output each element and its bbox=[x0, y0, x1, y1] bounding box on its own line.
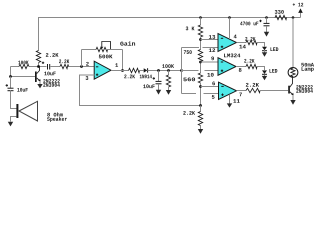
wire comparator2 output bbox=[236, 66, 246, 68]
wire top supply rail bbox=[39, 18, 301, 51]
node detector junctions bbox=[157, 69, 160, 72]
node Q1 collector junction bbox=[37, 65, 40, 68]
op-amp U3 LM324 comparator 2 bbox=[218, 58, 236, 76]
wire pin 11 ground bbox=[229, 95, 231, 104]
wire divider chain top bbox=[200, 18, 202, 26]
wire cap to speaker bbox=[11, 91, 17, 109]
speaker SPK1 8 Ohm bbox=[16, 104, 18, 118]
ground filter resistor bbox=[166, 90, 171, 95]
lamp L1 50mA bbox=[292, 18, 294, 68]
node supply-rail junction dots bbox=[199, 16, 202, 19]
resistor R12 2.2K bbox=[246, 64, 257, 68]
wire comparator1 output bbox=[237, 42, 247, 44]
wire R1 to collector node bbox=[38, 63, 40, 67]
node output junction bbox=[121, 69, 124, 72]
ground speaker bbox=[8, 122, 13, 127]
power +12 arrow bbox=[300, 13, 302, 18]
resistor R8 750 bbox=[198, 50, 202, 62]
potentiometer R4 500K gain bbox=[81, 50, 83, 67]
wire comparator3 output bbox=[237, 90, 247, 92]
LED D3 bbox=[262, 70, 267, 74]
wire to pin 5 bbox=[182, 93, 197, 95]
node tap 1 bbox=[199, 38, 202, 41]
node feedback junction at op-amp input bbox=[80, 65, 83, 68]
wire signal bus vertical bbox=[181, 48, 183, 94]
ground divider bottom bbox=[198, 129, 203, 134]
node tap 2 bbox=[199, 61, 202, 64]
resistor R5 2.2K (output series) bbox=[129, 68, 140, 72]
wire pot to output node bbox=[122, 50, 124, 71]
wire to LED1 bbox=[257, 43, 265, 47]
resistor R7 3K bbox=[198, 25, 202, 37]
op-amp U4 LM324 comparator 3 bbox=[219, 82, 237, 99]
wire 100K corner drop bbox=[10, 67, 12, 77]
wire Q1 base line bbox=[11, 76, 36, 78]
ground filter cap bbox=[156, 90, 161, 95]
wire tap2 to pin 9 bbox=[201, 61, 219, 63]
capacitor C3 10uF filter bbox=[158, 71, 160, 82]
op-amp U2 LM324 comparator 1 bbox=[218, 34, 237, 52]
wire pin 4 power bbox=[229, 18, 231, 39]
wire diode to detector node bbox=[148, 70, 182, 72]
resistor R14 330 bbox=[275, 15, 287, 19]
wire tap1 to pin 13 bbox=[201, 39, 219, 41]
resistor R13 2.2K bbox=[246, 88, 260, 92]
ground 4700uF bbox=[264, 32, 269, 37]
diode D1 1N914 bbox=[144, 68, 148, 72]
capacitor C1 10uF coupling bbox=[47, 64, 49, 70]
LED D2 bbox=[262, 47, 267, 51]
capacitor C2 10uF input bbox=[8, 87, 14, 89]
wire tap3 to pin 6 bbox=[201, 86, 219, 88]
ground Q1 emitter bbox=[39, 81, 41, 84]
resistor R9 560 bbox=[198, 73, 202, 83]
op-amp U1 LM324 section 1 bbox=[94, 61, 111, 79]
resistor R6 100K filter bbox=[168, 71, 170, 76]
resistor R10 2.2K divider bottom bbox=[200, 106, 202, 112]
wire to Q2 base bbox=[260, 90, 288, 92]
capacitor C4 4700uF bbox=[266, 18, 268, 24]
resistor R1 2.2K (Q1 collector load) bbox=[36, 51, 40, 63]
wire pin3 to ground bus bbox=[80, 75, 201, 106]
resistor R2 100K (Q1 feedback) bbox=[19, 64, 29, 68]
wire to pin 10 bbox=[182, 70, 199, 72]
wire base node down to input cap bbox=[10, 77, 12, 89]
wire to pin 12 bbox=[182, 47, 200, 49]
wire to LED2 bbox=[257, 67, 265, 71]
wire to diode bbox=[140, 70, 144, 72]
node ground bus junction bbox=[199, 104, 202, 107]
transistor Q1 2N2222 bbox=[35, 72, 37, 83]
node base junction bbox=[9, 75, 12, 78]
transistor Q2 2N2222 bbox=[288, 86, 290, 94]
node tap 3 bbox=[199, 85, 202, 88]
wire collector node line bbox=[11, 66, 20, 68]
ground Q2 emitter bbox=[292, 95, 294, 100]
resistor R3 2.2K (series to op-amp) bbox=[60, 64, 69, 68]
wire speaker low side bbox=[11, 117, 17, 122]
resistor R11 2.2K bbox=[246, 40, 257, 44]
wire op-amp output bbox=[111, 70, 129, 72]
